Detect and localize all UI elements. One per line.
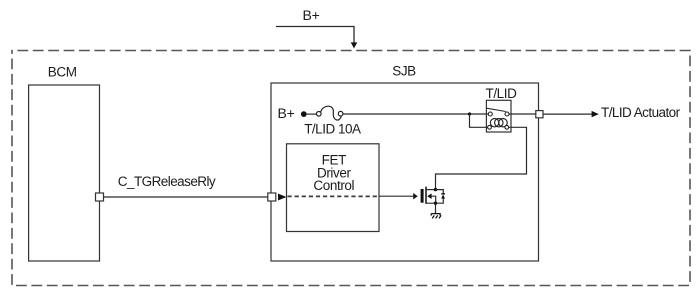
- svg-text:B+: B+: [303, 7, 320, 23]
- svg-text:BCM: BCM: [48, 64, 77, 79]
- svg-text:T/LID Actuator: T/LID Actuator: [601, 105, 681, 120]
- svg-text:T/LID: T/LID: [485, 86, 517, 101]
- svg-text:Control: Control: [313, 178, 354, 193]
- svg-text:SJB: SJB: [392, 63, 416, 78]
- svg-text:B+: B+: [278, 105, 295, 121]
- svg-text:C_TGReleaseRly: C_TGReleaseRly: [118, 174, 216, 189]
- svg-text:T/LID 10A: T/LID 10A: [304, 122, 361, 137]
